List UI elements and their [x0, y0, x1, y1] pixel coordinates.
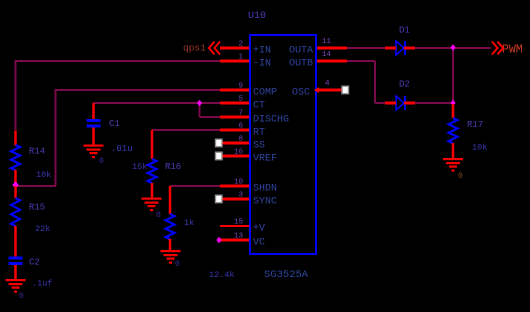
- wire RT horizontal: [152, 129, 220, 131]
- svg-text:6: 6: [238, 123, 243, 131]
- svg-text:15: 15: [234, 219, 244, 227]
- svg-text:22k: 22k: [35, 224, 50, 234]
- svg-text:5: 5: [238, 96, 243, 104]
- svg-text:SYNC: SYNC: [253, 197, 277, 208]
- svg-text:16: 16: [234, 149, 244, 157]
- svg-text:VREF: VREF: [253, 154, 277, 165]
- ground below R16: [142, 198, 162, 221]
- svg-text:2: 2: [238, 41, 243, 49]
- svg-text:CT: CT: [253, 101, 265, 112]
- pin 1 -IN: [220, 54, 271, 70]
- dangling wire marker VC pin: [216, 237, 221, 243]
- svg-text:0: 0: [175, 260, 180, 269]
- svg-text:R16: R16: [165, 162, 181, 172]
- svg-text:.01u: .01u: [111, 144, 133, 154]
- svg-text:7: 7: [238, 110, 243, 118]
- svg-text:SG3525A: SG3525A: [264, 269, 309, 281]
- svg-text:C1: C1: [109, 119, 120, 129]
- pin 2 +IN: [220, 41, 271, 57]
- IC U10 SG3525A: [248, 11, 316, 281]
- ground below C1: [84, 145, 105, 167]
- svg-text:8: 8: [238, 136, 243, 144]
- wire COMP horizontal: [56, 89, 221, 91]
- wire OUTB vertical: [374, 61, 376, 103]
- svg-text:VC: VC: [253, 238, 265, 249]
- no-connect marker pin 16: [216, 152, 223, 160]
- svg-text:.1uf: .1uf: [32, 279, 52, 289]
- svg-text:C2: C2: [29, 258, 40, 268]
- wire OUTB horizontal: [347, 60, 375, 62]
- svg-text:RT: RT: [253, 128, 265, 139]
- svg-text:+IN: +IN: [253, 46, 271, 57]
- capacitor C2 .1uf: [9, 257, 53, 289]
- wire OUTB to D2 anode: [375, 102, 385, 104]
- svg-text:COMP: COMP: [253, 88, 277, 99]
- svg-text:R15: R15: [29, 203, 45, 213]
- ground below R17: [443, 158, 463, 181]
- ground below 1k resistor: [161, 250, 181, 269]
- svg-text:SHDN: SHDN: [253, 184, 277, 195]
- junction node divider: [12, 181, 18, 189]
- wire OUTA to D1: [347, 47, 385, 49]
- svg-text:0: 0: [99, 157, 104, 166]
- port qps1: [183, 42, 220, 55]
- capacitor C1 .01u: [87, 103, 133, 154]
- svg-text:14: 14: [322, 51, 332, 59]
- svg-text:12.4k: 12.4k: [209, 270, 235, 280]
- resistor R16 15k: [132, 130, 181, 198]
- svg-text:9: 9: [238, 83, 243, 91]
- pin 8 SS: [222, 136, 265, 152]
- wire -IN net vertical to R14: [15, 60, 17, 130]
- svg-text:10k: 10k: [472, 143, 487, 153]
- pin 9 COMP: [220, 83, 277, 99]
- pin 15 +V: [220, 219, 265, 235]
- wire COMP vertical: [55, 89, 57, 186]
- svg-text:0: 0: [156, 211, 161, 220]
- resistor R14 10k: [11, 131, 51, 187]
- pin 4 clock arrow: [314, 87, 319, 93]
- svg-text:-IN: -IN: [253, 59, 271, 70]
- pin 10 SHDN: [220, 179, 277, 195]
- svg-text:qps1: qps1: [183, 43, 206, 54]
- pin 3 SYNC: [222, 192, 277, 208]
- svg-text:10k: 10k: [36, 170, 51, 180]
- svg-text:DISCHG: DISCHG: [253, 115, 289, 126]
- pin 6 RT: [220, 123, 265, 139]
- wire CT horizontal: [94, 102, 221, 104]
- ground below C2: [6, 279, 26, 301]
- junction node D2 cathode: [450, 100, 455, 106]
- wire junction to PWM port: [453, 47, 491, 49]
- wire SHDN horizontal: [170, 185, 220, 187]
- junction node PWM: [450, 44, 455, 50]
- wire junction vertical D1-D2: [452, 48, 454, 103]
- svg-text:D1: D1: [399, 26, 410, 36]
- svg-text:D2: D2: [399, 80, 410, 90]
- port PWM: [492, 42, 523, 57]
- pin 7 DISCHG: [220, 110, 289, 126]
- wire CT to DISCHG vertical: [199, 103, 201, 117]
- pin 4 OSC: [292, 80, 342, 99]
- diode D1: [385, 26, 415, 56]
- svg-text:10: 10: [234, 179, 244, 187]
- svg-text:0: 0: [458, 172, 463, 181]
- wire -IN net horizontal: [16, 60, 221, 62]
- resistor R17 10k: [449, 104, 488, 159]
- svg-text:OUTA: OUTA: [289, 46, 313, 57]
- no-connect marker pin 4 OSC: [342, 86, 349, 94]
- no-connect marker pin 8: [216, 139, 223, 147]
- svg-text:R14: R14: [29, 147, 45, 157]
- pin 14 OUTB: [289, 51, 347, 70]
- svg-text:3: 3: [238, 192, 243, 200]
- resistor R15 22k: [11, 186, 50, 257]
- svg-text:4: 4: [325, 80, 330, 88]
- no-connect marker pin 3: [216, 195, 223, 203]
- junction node CT/DISCHG: [197, 100, 202, 106]
- svg-text:U10: U10: [248, 11, 266, 22]
- svg-text:R17: R17: [467, 120, 483, 130]
- svg-text:+V: +V: [253, 224, 265, 235]
- svg-text:11: 11: [322, 38, 332, 46]
- diode D2: [385, 80, 415, 111]
- pin 16 VREF: [222, 149, 277, 165]
- svg-text:1: 1: [238, 54, 243, 62]
- resistor 1k on SHDN: [166, 186, 195, 251]
- svg-text:0: 0: [19, 292, 24, 301]
- svg-text:15k: 15k: [132, 162, 147, 172]
- svg-text:PWM: PWM: [502, 44, 523, 57]
- pin 13 VC: [220, 233, 265, 249]
- svg-text:SS: SS: [253, 141, 265, 152]
- svg-text:OSC: OSC: [292, 88, 310, 99]
- wire COMP to divider junction: [16, 185, 57, 187]
- wire DISCHG horizontal: [200, 116, 221, 118]
- pin 5 CT: [220, 96, 265, 112]
- wire D2 cathode to junction: [415, 102, 453, 104]
- svg-text:OUTB: OUTB: [289, 59, 313, 70]
- wire D1 cathode to junction: [415, 47, 453, 49]
- svg-text:13: 13: [234, 233, 244, 241]
- svg-text:1k: 1k: [184, 218, 194, 228]
- pin 11 OUTA: [289, 38, 347, 57]
